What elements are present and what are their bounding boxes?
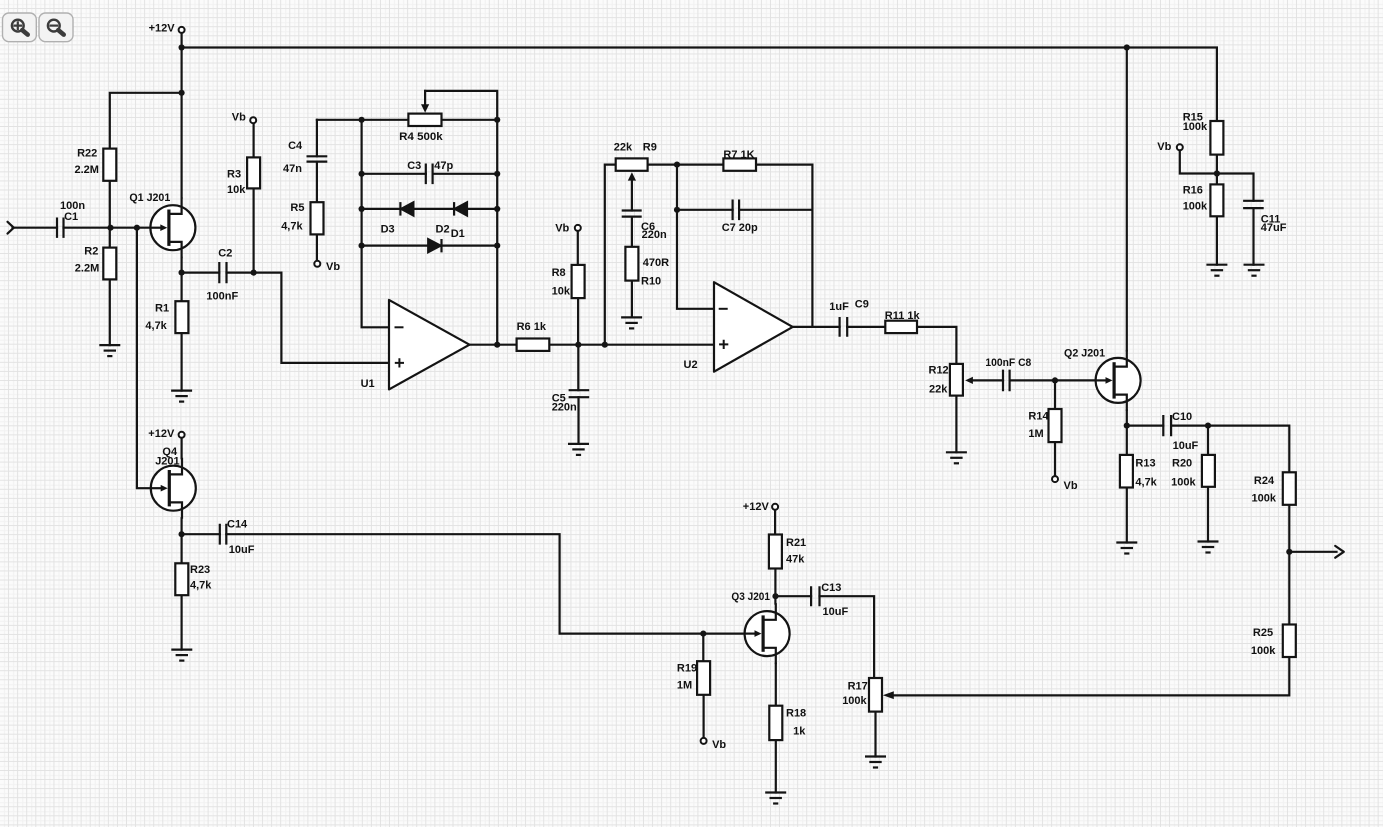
- svg-text:D3: D3: [381, 224, 395, 236]
- svg-text:4,7k: 4,7k: [281, 221, 303, 233]
- svg-text:Vb: Vb: [1157, 141, 1171, 153]
- svg-text:+12V: +12V: [149, 23, 176, 35]
- svg-text:R21: R21: [786, 537, 806, 549]
- svg-text:22k: 22k: [614, 141, 633, 153]
- svg-text:U2: U2: [684, 359, 698, 371]
- svg-text:R10: R10: [641, 275, 661, 287]
- svg-text:2.2M: 2.2M: [75, 262, 99, 274]
- svg-text:10uF: 10uF: [823, 606, 849, 618]
- svg-text:10k: 10k: [227, 184, 246, 196]
- svg-text:47p: 47p: [434, 160, 453, 172]
- svg-text:R19: R19: [677, 663, 697, 675]
- svg-text:220n: 220n: [642, 229, 667, 241]
- svg-text:1M: 1M: [677, 679, 692, 691]
- svg-text:R11 1k: R11 1k: [885, 310, 921, 322]
- svg-text:C2: C2: [218, 248, 232, 260]
- svg-text:100k: 100k: [1183, 200, 1208, 212]
- svg-text:Vb: Vb: [232, 112, 246, 124]
- svg-text:D2: D2: [436, 224, 450, 236]
- svg-text:R25: R25: [1253, 627, 1273, 639]
- svg-text:R24: R24: [1254, 475, 1275, 487]
- svg-text:R1: R1: [155, 303, 169, 315]
- svg-text:C9: C9: [855, 298, 869, 310]
- svg-text:R23: R23: [190, 564, 210, 576]
- svg-text:R2: R2: [84, 246, 98, 258]
- svg-text:100k: 100k: [1171, 477, 1196, 489]
- svg-text:R9: R9: [643, 141, 657, 153]
- svg-text:Q3 J201: Q3 J201: [731, 591, 770, 603]
- svg-text:R20: R20: [1172, 458, 1192, 470]
- svg-text:R14: R14: [1028, 410, 1049, 422]
- svg-text:100nF: 100nF: [206, 291, 238, 303]
- svg-text:470R: 470R: [643, 257, 669, 269]
- svg-text:47k: 47k: [786, 554, 805, 566]
- svg-text:C10: C10: [1172, 411, 1192, 423]
- svg-text:1k: 1k: [793, 726, 806, 738]
- svg-text:R8: R8: [552, 267, 566, 279]
- svg-text:J201: J201: [155, 455, 179, 467]
- svg-text:100k: 100k: [842, 695, 867, 707]
- svg-text:10uF: 10uF: [229, 544, 255, 556]
- svg-text:C1: C1: [64, 211, 78, 223]
- svg-text:C13: C13: [821, 582, 841, 594]
- svg-text:Vb: Vb: [555, 222, 569, 234]
- svg-text:100k: 100k: [1251, 645, 1276, 657]
- svg-text:100k: 100k: [1183, 121, 1208, 133]
- svg-text:47uF: 47uF: [1261, 222, 1287, 234]
- svg-text:Vb: Vb: [326, 261, 340, 273]
- svg-text:C14: C14: [227, 519, 248, 531]
- svg-text:2.2M: 2.2M: [75, 164, 99, 176]
- svg-text:4,7k: 4,7k: [145, 320, 167, 332]
- svg-text:R5: R5: [290, 202, 304, 214]
- svg-text:R7 1K: R7 1K: [723, 149, 754, 161]
- svg-text:10k: 10k: [552, 286, 571, 298]
- svg-text:Q2 J201: Q2 J201: [1064, 347, 1105, 359]
- svg-text:R17: R17: [848, 680, 868, 692]
- svg-text:1uF: 1uF: [829, 301, 849, 313]
- svg-text:100k: 100k: [1252, 493, 1277, 505]
- svg-text:C3: C3: [407, 160, 421, 172]
- svg-text:R12: R12: [929, 365, 949, 377]
- svg-text:Vb: Vb: [1064, 480, 1078, 492]
- svg-text:4,7k: 4,7k: [190, 580, 212, 592]
- svg-text:C7 20p: C7 20p: [722, 222, 758, 234]
- svg-text:D1: D1: [451, 228, 465, 240]
- svg-text:22k: 22k: [929, 384, 948, 396]
- svg-text:Q1 J201: Q1 J201: [129, 192, 170, 204]
- svg-text:4,7k: 4,7k: [1135, 477, 1157, 489]
- svg-text:R4 500k: R4 500k: [399, 131, 443, 143]
- svg-text:220n: 220n: [552, 402, 577, 414]
- svg-text:47n: 47n: [283, 163, 302, 175]
- svg-text:U1: U1: [361, 378, 375, 390]
- svg-text:100nF C8: 100nF C8: [985, 357, 1031, 369]
- svg-text:R22: R22: [77, 148, 97, 160]
- svg-text:R6 1k: R6 1k: [517, 321, 547, 333]
- svg-text:R13: R13: [1135, 458, 1155, 470]
- svg-text:R18: R18: [786, 708, 806, 720]
- svg-text:+12V: +12V: [148, 428, 175, 440]
- svg-text:C4: C4: [288, 140, 303, 152]
- svg-text:R3: R3: [227, 169, 241, 181]
- svg-text:Vb: Vb: [712, 739, 726, 751]
- svg-text:+12V: +12V: [743, 501, 770, 513]
- svg-text:R16: R16: [1183, 185, 1203, 197]
- svg-text:10uF: 10uF: [1173, 440, 1199, 452]
- svg-text:1M: 1M: [1028, 428, 1043, 440]
